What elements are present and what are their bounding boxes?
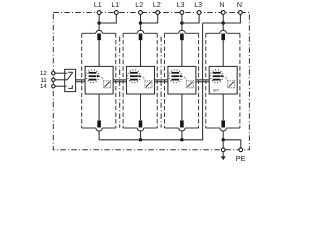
encapsulated spark gap electrode stack N — [210, 70, 223, 83]
trigger arrow N — [221, 75, 225, 78]
dashed plug-in module box N — [206, 32, 220, 34]
wire body to lower disconnector — [181, 94, 183, 120]
wire L2 terminal stem — [140, 14, 142, 23]
thermal disconnector (upper black element) L1 — [97, 34, 101, 41]
svg-text:L3’: L3’ — [194, 2, 203, 9]
lower black disconnect element N — [221, 120, 225, 127]
module N protection path — [203, 14, 241, 140]
earth conductor arrow — [222, 152, 224, 156]
wire disconnector to spark-gap body — [222, 40, 224, 66]
terminal L3 — [180, 11, 184, 15]
node N junction — [221, 21, 225, 25]
wire L2&#39; drop to junction — [141, 14, 158, 23]
wire junction to earth terminal — [222, 140, 224, 150]
svg-text:L3: L3 — [177, 2, 185, 9]
thermal disconnector (upper black element) N — [221, 34, 225, 41]
thermal disconnector (upper black element) L3 — [180, 34, 184, 41]
changeover contact: 14 contact bend — [68, 85, 72, 88]
wire to bottom bus — [98, 131, 100, 140]
terminal L2&#39; — [156, 11, 160, 15]
enclosure boundary (dash-dot) — [53, 13, 249, 150]
trigger arrow L2 — [138, 75, 142, 78]
wire hop over box top edge — [137, 30, 143, 33]
svg-text:N: N — [219, 2, 224, 9]
trigger circuit box L2 — [145, 81, 152, 88]
mechanical linkage (double line) — [76, 79, 86, 81]
spark gap module body box L1 — [85, 66, 113, 94]
node L2 junction — [139, 21, 143, 25]
wire to bottom bus — [181, 131, 183, 140]
wire disconnector to spark-gap body — [140, 40, 142, 66]
changeover contact: 12 lead — [65, 72, 68, 74]
module divider 1-2 — [119, 37, 121, 128]
terminal L2 — [139, 11, 143, 15]
changeover contact: 14 lead — [65, 85, 67, 87]
wire body to lower disconnector — [222, 94, 224, 120]
wire body to lower disconnector — [98, 94, 100, 120]
svg-text:PE: PE — [236, 154, 246, 163]
spark gap module body box L2 — [127, 66, 155, 94]
svg-text:L1: L1 — [94, 2, 102, 9]
wire hop under box bottom edge — [220, 128, 226, 131]
wire L3 terminal stem — [181, 14, 183, 23]
wire hop under box bottom edge — [96, 128, 102, 131]
dashed plug-in module box L2 — [123, 32, 137, 34]
terminal N — [221, 11, 225, 15]
lower black disconnect element L1 — [97, 120, 101, 127]
module L1 protection path — [82, 14, 117, 140]
wire N junction to disconnector — [222, 23, 224, 31]
node N-PE junction — [221, 138, 225, 142]
terminal L3&#39; — [197, 11, 201, 15]
module L3 protection path — [165, 14, 200, 140]
wire L3 junction to disconnector — [181, 23, 183, 31]
wire disconnector to spark-gap body — [181, 40, 183, 66]
terminal earth — [221, 148, 225, 152]
wire junction to PE terminal — [223, 140, 241, 150]
thermal disconnector (upper black element) L2 — [139, 34, 143, 41]
N bus: module outputs L1,L2,L3 to N node — [99, 23, 203, 140]
wire L3&#39; drop to junction — [182, 14, 199, 23]
encapsulated spark gap electrode stack L1 — [86, 70, 99, 83]
module divider 2-3 — [160, 37, 162, 128]
node L3 junction — [180, 21, 184, 25]
wire N&#39; drop to junction — [203, 14, 241, 23]
node L1 junction — [97, 21, 101, 25]
wire disconnector to spark-gap body — [98, 40, 100, 66]
remote signalling contact wires 12/11/14 — [55, 72, 65, 74]
wire L2 junction to disconnector — [140, 23, 142, 31]
terminal L1&#39; — [114, 11, 118, 15]
changeover contact: fixed contact bar — [68, 71, 73, 73]
terminal PE — [239, 148, 243, 152]
wire N terminal stem — [222, 14, 224, 23]
changeover contact: 11 lead — [65, 79, 67, 81]
terminal N&#39; — [239, 11, 243, 15]
wire hop over box top edge — [179, 30, 185, 33]
trigger circuit box N — [228, 81, 235, 88]
dashed plug-in module box L1 — [82, 32, 96, 34]
wire hop over box top edge — [220, 30, 226, 33]
wire hop over box top edge — [96, 30, 102, 33]
terminal L1 — [97, 11, 101, 15]
spark gap module body box L3 — [168, 66, 196, 94]
remote signalling contact box — [65, 69, 76, 91]
encapsulated spark gap electrode stack L2 — [127, 70, 140, 83]
wire to bottom bus — [222, 131, 224, 140]
lower black disconnect element L3 — [180, 120, 184, 127]
trigger arrow L3 — [180, 75, 184, 78]
wire hop under box bottom edge — [179, 128, 185, 131]
svg-text:N’: N’ — [237, 2, 243, 9]
svg-text:L2: L2 — [135, 2, 143, 9]
lower black disconnect element L2 — [139, 120, 143, 127]
node bus-L2 — [139, 138, 143, 142]
terminal 12 — [52, 72, 55, 75]
dashed plug-in module box L3 — [165, 32, 179, 34]
wire L1&#39; drop to junction — [99, 14, 116, 23]
wire to bottom bus — [140, 131, 142, 140]
terminal 14 — [52, 85, 55, 88]
svg-text:um: um — [213, 88, 219, 93]
terminal 11 — [52, 78, 55, 81]
wire body to lower disconnector — [140, 94, 142, 120]
encapsulated spark gap electrode stack L3 — [169, 70, 182, 83]
trigger circuit box L1 — [104, 81, 111, 88]
module L2 protection path — [123, 14, 158, 140]
wire L1 junction to disconnector — [98, 23, 100, 31]
svg-text:L2’: L2’ — [153, 2, 162, 9]
spark gap module body box N — [209, 66, 237, 94]
node bus-L3 — [180, 138, 184, 142]
wire hop under box bottom edge — [137, 128, 143, 131]
changeover contact: lever — [67, 72, 73, 80]
trigger circuit box L3 — [186, 81, 193, 88]
wire L1 terminal stem — [98, 14, 100, 23]
svg-text:L1’: L1’ — [111, 2, 120, 9]
svg-text:14: 14 — [40, 83, 47, 90]
trigger arrow L1 — [97, 75, 101, 78]
